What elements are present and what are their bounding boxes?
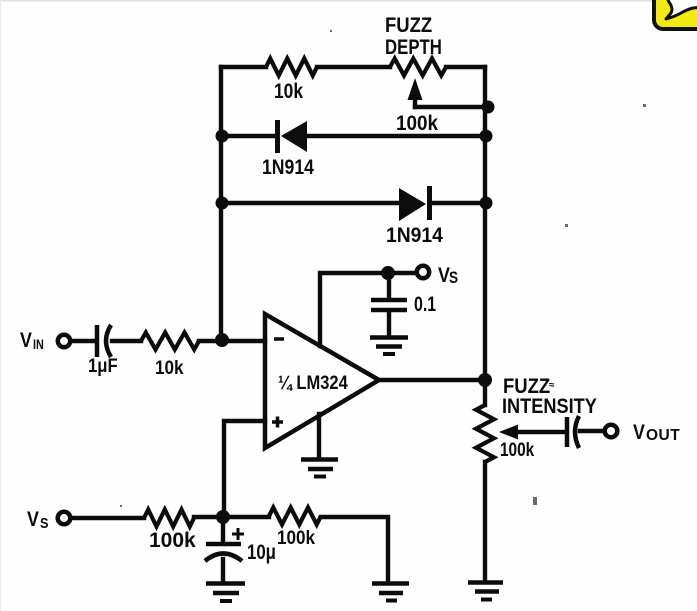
svg-text:FUZZ: FUZZ (385, 14, 432, 37)
svg-text:1N914: 1N914 (262, 156, 314, 180)
svg-text:0.1: 0.1 (414, 292, 436, 316)
svg-text:10k: 10k (274, 81, 303, 104)
svg-text:V: V (633, 421, 645, 445)
svg-text:100k: 100k (500, 438, 535, 460)
svg-text:10μ: 10μ (247, 541, 276, 564)
svg-text:100k: 100k (277, 527, 316, 548)
svg-text:1μF: 1μF (88, 355, 118, 376)
svg-text:V: V (438, 264, 450, 288)
svg-text:OUT: OUT (646, 427, 680, 444)
svg-text:DEPTH: DEPTH (385, 36, 442, 59)
svg-text:100k: 100k (396, 112, 439, 135)
svg-text:1N914: 1N914 (386, 224, 444, 247)
svg-text:V: V (20, 329, 32, 353)
svg-text:10k: 10k (155, 357, 184, 378)
svg-text:100k: 100k (149, 529, 196, 552)
svg-text:S: S (40, 514, 49, 531)
svg-text:INTENSITY: INTENSITY (502, 395, 597, 419)
svg-text:≈: ≈ (549, 380, 555, 391)
svg-text:S: S (449, 269, 458, 288)
svg-text:IN: IN (33, 337, 44, 352)
svg-text:V: V (27, 508, 39, 532)
svg-text:¼ LM324: ¼ LM324 (278, 372, 348, 393)
